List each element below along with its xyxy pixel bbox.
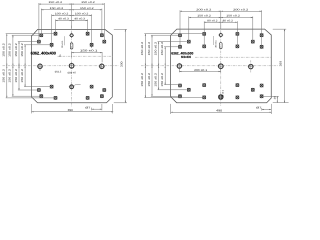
svg-text:490: 490 <box>216 108 222 112</box>
svg-text:200 ±0.1: 200 ±0.1 <box>194 69 208 72</box>
svg-text:150 ±0.2: 150 ±0.2 <box>3 43 6 57</box>
svg-text:Ø7: Ø7 <box>256 106 262 109</box>
svg-text:150 ±0.2: 150 ±0.2 <box>49 1 63 4</box>
svg-text:30 ±0.1: 30 ±0.1 <box>61 40 64 48</box>
svg-text:40 ±0.3: 40 ±0.3 <box>74 18 85 21</box>
svg-text:150 ±0.2: 150 ±0.2 <box>15 43 18 57</box>
svg-text:200 ±0.2: 200 ±0.2 <box>233 8 249 11</box>
svg-text:150 ±0.2: 150 ±0.2 <box>141 73 144 87</box>
svg-text:150 ±0.2: 150 ±0.2 <box>3 69 6 83</box>
svg-text:150 ±0.2: 150 ±0.2 <box>81 1 95 4</box>
svg-text:300: 300 <box>119 61 123 67</box>
svg-text:150 ±0.2: 150 ±0.2 <box>154 41 157 55</box>
svg-text:150 ±0.2: 150 ±0.2 <box>226 15 240 18</box>
svg-text:150 ±0.2: 150 ±0.2 <box>21 43 24 57</box>
svg-text:150 ±0.2: 150 ±0.2 <box>161 41 164 55</box>
svg-text:100 ±0.2: 100 ±0.2 <box>75 13 89 16</box>
svg-text:150 ±0.2: 150 ±0.2 <box>9 43 12 57</box>
svg-text:40 ±0.3: 40 ±0.3 <box>58 18 69 21</box>
svg-text:Ø12,5: Ø12,5 <box>55 71 62 74</box>
svg-text:390: 390 <box>68 108 74 112</box>
svg-text:500x500: 500x500 <box>181 55 191 59</box>
svg-text:150 ±0.1: 150 ±0.1 <box>80 50 98 53</box>
svg-text:150 ±0.2: 150 ±0.2 <box>161 73 164 87</box>
svg-text:150 ±0.2: 150 ±0.2 <box>154 73 157 87</box>
svg-text:150 ±0.2: 150 ±0.2 <box>9 69 12 83</box>
svg-text:30 ±0.1: 30 ±0.1 <box>221 89 224 97</box>
svg-text:150 ±0.2: 150 ±0.2 <box>21 69 24 83</box>
svg-text:6362_400x400: 6362_400x400 <box>31 50 57 55</box>
svg-text:150 ±0.2: 150 ±0.2 <box>15 69 18 83</box>
svg-text:150 ±0.2: 150 ±0.2 <box>197 15 211 18</box>
svg-text:150 ±0.2: 150 ±0.2 <box>141 41 144 55</box>
svg-text:Ø7: Ø7 <box>85 106 91 109</box>
svg-text:150 ±0.2: 150 ±0.2 <box>148 41 151 55</box>
svg-text:300: 300 <box>278 60 282 66</box>
svg-text:80 ±0.2: 80 ±0.2 <box>207 19 218 22</box>
svg-text:30 ±0.1: 30 ±0.1 <box>214 40 217 48</box>
svg-text:150 ±0.2: 150 ±0.2 <box>50 7 64 10</box>
svg-text:200 ±0.2: 200 ±0.2 <box>196 8 212 11</box>
svg-text:Ø30 H7: Ø30 H7 <box>68 71 77 74</box>
svg-text:150 ±0.2: 150 ±0.2 <box>148 73 151 87</box>
svg-text:100 ±0.2: 100 ±0.2 <box>55 13 69 16</box>
svg-text:80 ±0.2: 80 ±0.2 <box>223 19 234 22</box>
svg-text:150 ±0.2: 150 ±0.2 <box>80 7 94 10</box>
